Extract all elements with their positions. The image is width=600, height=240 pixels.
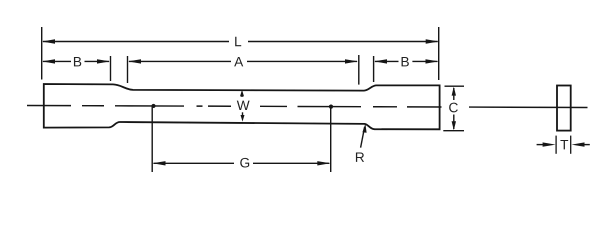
dimension B1 arrow right <box>97 59 110 63</box>
centerline segment 3 <box>115 105 184 107</box>
label W <box>237 101 250 110</box>
label R <box>356 152 364 161</box>
dimension W arrow down <box>242 112 244 116</box>
gauge mark dot right <box>329 105 333 109</box>
label B left <box>74 57 81 66</box>
dimension B2 arrow left <box>374 59 387 63</box>
dimension T tick right <box>570 136 572 154</box>
dimension B1 arrow left <box>42 59 55 63</box>
specimen outline (dog-bone tensile bar) <box>44 84 440 129</box>
label C <box>449 103 458 113</box>
centerline segment 10 <box>469 106 588 108</box>
dimension L line <box>43 41 229 43</box>
dimension A arrow right <box>345 59 358 63</box>
centerline segment 7 <box>298 105 362 107</box>
extension line right end <box>438 27 440 80</box>
extension line A right <box>358 55 360 85</box>
dimension C line <box>453 88 455 100</box>
dimension B2 line <box>375 60 399 62</box>
label A <box>234 57 243 66</box>
dimension G line <box>154 162 235 164</box>
centerline segment 5 <box>208 105 231 107</box>
centerline segment 4 <box>197 105 203 107</box>
radius R leader line <box>361 127 365 148</box>
centerline segment 1 <box>27 105 71 107</box>
centerline segment 9 <box>407 106 442 108</box>
extension line left end <box>41 27 43 80</box>
centerline segment 6 <box>260 105 287 107</box>
dimension G arrow right <box>317 161 330 165</box>
dimension B1 line <box>43 60 71 62</box>
dimension C arrow up <box>452 87 456 96</box>
dimension C tick bottom <box>443 130 464 132</box>
dimension C arrow down <box>452 121 456 130</box>
gauge mark dot left <box>151 104 155 108</box>
dimension L arrow left <box>42 39 55 43</box>
radius R leader arrowhead <box>362 124 366 133</box>
extension line B1 right <box>110 56 112 81</box>
label G <box>240 158 249 168</box>
dimension L arrow right <box>426 39 439 43</box>
label L <box>235 37 241 46</box>
centerline segment 8 <box>373 106 397 108</box>
extension line A left <box>127 56 129 83</box>
extension line G left <box>151 107 153 173</box>
dimension W arrow up <box>241 93 243 97</box>
dimension T tick left <box>555 136 557 154</box>
thickness edge-view rectangle <box>557 86 571 131</box>
centerline segment 2 <box>82 105 104 107</box>
label T <box>560 140 568 149</box>
dimension G arrow left <box>153 161 166 165</box>
dimension A arrow left <box>128 59 141 63</box>
dimension T line+arrow left <box>537 144 546 146</box>
label B right <box>402 57 409 66</box>
extension line G right <box>330 107 332 172</box>
dimension T line+arrow right <box>581 144 590 146</box>
dimension B2 arrow right <box>426 59 439 63</box>
dimension A line <box>129 60 231 62</box>
dimension C tick top <box>445 85 465 87</box>
extension line B2 left <box>373 56 375 82</box>
